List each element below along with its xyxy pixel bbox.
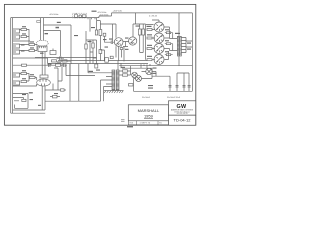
wire ground y90: [45, 84, 66, 92]
pilot lamp LP1: [132, 72, 138, 78]
wire ot primary top: [178, 13, 180, 37]
supply rail y76: [152, 75, 170, 77]
chassis top rail: [11, 16, 112, 18]
chassis left double bus: [11, 18, 13, 114]
grid resistor RG3: [147, 48, 152, 50]
rectifier D1: [123, 70, 128, 72]
wire tone verticals: [62, 64, 95, 81]
impedance selector SW1: [187, 43, 191, 50]
heater rail A: [119, 65, 192, 67]
tube V1 envelope: [36, 40, 48, 46]
resistor R11: [56, 64, 61, 66]
svg-text:TD: TD: [159, 123, 162, 125]
capacitor C4: [109, 41, 115, 45]
resistor R3: [29, 43, 35, 45]
resistor R16: [95, 30, 97, 35]
wire V2 left: [13, 80, 37, 86]
tube V1 base: [38, 46, 47, 51]
wire tone verticals left: [54, 68, 62, 90]
wire ot secondary: [179, 38, 192, 66]
filter cap FC3: [183, 86, 186, 87]
pilot lamp LP1: [136, 76, 142, 82]
svg-text:1959: 1959: [144, 114, 154, 119]
grid resistor RG2: [147, 37, 152, 39]
svg-text:+454 Volts: +454 Volts: [113, 9, 122, 12]
wire grid bus: [146, 25, 154, 60]
border frame: [4, 4, 195, 125]
wire rail y65: [13, 64, 62, 66]
triode PI V4a: [114, 38, 123, 47]
screen resistor RS1: [166, 32, 170, 34]
node label +454 volts right: [97, 9, 122, 16]
svg-text:50+50uF: 50+50uF: [142, 97, 151, 99]
svg-text:ISS: ISS: [130, 123, 134, 125]
input jack J1: [13, 29, 20, 33]
title text 1959: [144, 114, 154, 119]
filter cap FC4: [188, 86, 191, 87]
filter cap FC2: [176, 86, 179, 87]
wire pi between: [116, 42, 129, 62]
logo sub text: [171, 108, 194, 115]
rectifier D2: [123, 74, 128, 76]
svg-text:50+50uF 32uF: 50+50uF 32uF: [167, 97, 181, 99]
resistor R15: [92, 43, 94, 48]
tube label EL34: [149, 15, 158, 17]
resistor R9: [22, 99, 26, 101]
input jack J3: [13, 44, 20, 48]
output transformer T2: [177, 37, 181, 57]
wire verticals mid: [70, 64, 79, 101]
chassis bottom-left: [11, 112, 46, 114]
svg-text:TD-04-12: TD-04-12: [174, 117, 192, 122]
power tube PV4: [154, 55, 164, 65]
input jack J4: [13, 50, 20, 54]
label speaker: [29, 92, 33, 93]
component labels scatter: [21, 26, 169, 106]
svg-text:+454 Volts: +454 Volts: [49, 13, 58, 16]
wire pi input vertical: [100, 24, 116, 42]
wire top feed: [90, 18, 97, 32]
capacitor C1: [48, 63, 52, 67]
filter cap FC1: [169, 86, 172, 87]
wire V1 anode feeds: [37, 18, 44, 41]
capacitor C2: [62, 63, 67, 67]
tube4 pin drops: [141, 64, 150, 68]
choke CH1: [95, 56, 113, 68]
triode PI V4b: [129, 37, 137, 45]
svg-text:AMATEUR RADIO DESIGNS: AMATEUR RADIO DESIGNS: [171, 108, 194, 111]
voltage selector cluster top: [73, 11, 97, 20]
wire tube1 top: [152, 20, 159, 22]
screen resistor RS3: [166, 54, 170, 56]
resistor R18: [99, 50, 102, 54]
rev mark left of title: [121, 120, 125, 121]
label OT: [175, 33, 180, 34]
node label +454 volts left: [49, 13, 58, 16]
wire preamp mid: [44, 25, 97, 64]
input jack J6: [13, 81, 20, 85]
power tube PV3: [154, 44, 164, 54]
revision row: [128, 121, 168, 125]
resistor R21 plate: [142, 29, 145, 35]
drawing number TD-04-12: [174, 117, 192, 122]
power tube PV1: [154, 22, 164, 32]
wire rectifier: [119, 66, 130, 75]
heater rail B: [122, 67, 152, 69]
resistor R22: [129, 84, 134, 86]
resistor R2: [21, 35, 27, 37]
heater rail pair: [48, 61, 149, 64]
wire pi plates up: [133, 13, 146, 53]
wire jack cluster 2: [20, 45, 38, 51]
grid resistor RG1: [147, 29, 152, 31]
title block marshall box: [128, 105, 168, 121]
input jack J5: [13, 73, 20, 77]
resistor R8: [30, 76, 36, 78]
resistor R19 tail: [120, 48, 123, 50]
wire V1 socket: [35, 52, 51, 59]
svg-text:+454 Volts: +454 Volts: [97, 11, 106, 14]
resistor R14: [85, 44, 87, 49]
wire jack cluster 3: [20, 74, 37, 82]
svg-text:+440 Volts: +440 Volts: [99, 13, 108, 16]
resistor R1: [21, 28, 27, 30]
wire long vertical x42 x45: [13, 58, 45, 110]
input jack J2: [13, 35, 20, 39]
screen resistor RS2: [166, 43, 170, 45]
resistor R7: [21, 80, 27, 82]
mains transformer T1: [112, 70, 119, 90]
logo text GW: [177, 104, 187, 110]
wire v3: [97, 21, 104, 61]
tube V2 base: [40, 75, 48, 78]
svg-text:1 SEPT 76: 1 SEPT 76: [140, 123, 151, 125]
label 470k: [56, 22, 61, 29]
resistor R12: [52, 60, 57, 62]
capacitor C3: [57, 57, 65, 61]
wire mains feed y101: [45, 64, 70, 101]
filter cap bank verticals: [170, 73, 189, 91]
power tube PV2: [154, 33, 164, 43]
wire plate connections: [164, 27, 177, 60]
page mark bottom: [127, 126, 133, 127]
ground chassis hatch: [104, 90, 124, 93]
svg-text:MARSHALL: MARSHALL: [138, 108, 160, 113]
wire lamp: [134, 68, 153, 91]
logo box GW: [169, 101, 196, 115]
resistor R20 plate: [138, 29, 141, 35]
wire speaker feed: [13, 94, 28, 109]
grid resistor RG4: [147, 59, 152, 61]
resistor R13: [62, 60, 67, 62]
bias rectifier MR1: [146, 68, 152, 74]
right inner vertical: [191, 13, 193, 91]
drawing number cell: [169, 115, 196, 125]
volume pot VP1: [50, 49, 56, 55]
supply rail y97: [134, 90, 193, 92]
label mains: [89, 71, 94, 72]
resistor R4: [29, 49, 35, 51]
title text MARSHALL: [138, 108, 160, 113]
wire grid stubs: [152, 30, 155, 60]
resistor R5: [22, 64, 27, 66]
resistor R6: [21, 72, 27, 74]
wire transformer left: [79, 63, 112, 101]
svg-text:4 x EL34: 4 x EL34: [149, 15, 158, 17]
tube V2 envelope: [37, 79, 51, 86]
wire rail y58: [13, 57, 48, 59]
fuse F1: [50, 95, 60, 98]
wire bias rectifier: [142, 72, 157, 77]
filter cap labels: [142, 97, 181, 99]
speaker jack J7: [13, 98, 28, 109]
coupling network verticals: [86, 31, 97, 64]
B+ rail top right: [112, 13, 193, 16]
resistor R17: [99, 30, 102, 36]
heater wires right: [118, 61, 121, 70]
wire jack cluster 1: [13, 30, 30, 45]
